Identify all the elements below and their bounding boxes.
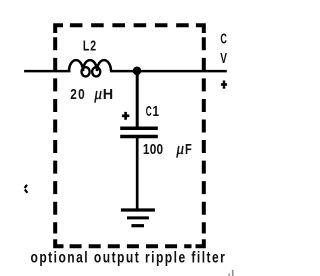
svg-text:20: 20	[70, 86, 84, 102]
box top dashed edge	[70, 23, 189, 27]
svg-text:C: C	[146, 103, 152, 120]
wire: capacitor down to ground	[136, 138, 139, 210]
box bottom dashed edge	[70, 244, 192, 248]
box right dashed edge	[202, 37, 206, 233]
svg-text:100: 100	[143, 141, 163, 157]
value 20 uH	[70, 86, 84, 102]
capacitor C1 top plate	[120, 126, 158, 130]
box corner dash bottom-left	[55, 239, 63, 246]
clipped character fragment at left edge	[25, 185, 28, 193]
capacitor C1 bottom plate	[120, 135, 158, 139]
svg-text:optional output ripple filter: optional output ripple filter	[31, 248, 226, 266]
faint clipped text tops at bottom edge	[228, 270, 233, 276]
inductor L2 loop 2	[92, 67, 100, 76]
svg-text:1: 1	[152, 103, 159, 120]
box corner dash top-left	[55, 25, 63, 33]
svg-text:μ: μ	[93, 86, 102, 104]
wire: node down to capacitor	[136, 71, 139, 128]
svg-text:F: F	[185, 140, 192, 157]
dashed enclosure box	[55, 25, 204, 246]
svg-text:C: C	[220, 30, 227, 47]
svg-text:μ: μ	[175, 140, 184, 158]
clipped label fragment C (right edge)	[220, 30, 227, 47]
label L2	[83, 37, 96, 54]
box corner dash top-right	[196, 25, 204, 33]
ground symbol	[121, 210, 155, 226]
inductor L2 loop 1	[82, 67, 90, 76]
svg-text:V: V	[220, 50, 227, 66]
inductor L2 coil (three humps)	[69, 60, 111, 71]
wire: input segment (left of coil)	[24, 70, 70, 73]
wire: output segment (right of coil)	[110, 70, 227, 73]
svg-text:H: H	[103, 87, 113, 103]
clipped label fragment V (right edge)	[220, 50, 227, 66]
value 100 uF	[143, 141, 163, 157]
node junction dot	[133, 67, 142, 76]
label C1	[146, 103, 152, 120]
box corner dash bottom-right	[196, 239, 204, 246]
box left dashed edge	[53, 37, 57, 233]
caption: optional output ripple filter	[31, 248, 226, 266]
clipped label fragment + (right edge)	[221, 81, 227, 89]
capacitor C1 plus polarity sign	[122, 112, 129, 120]
